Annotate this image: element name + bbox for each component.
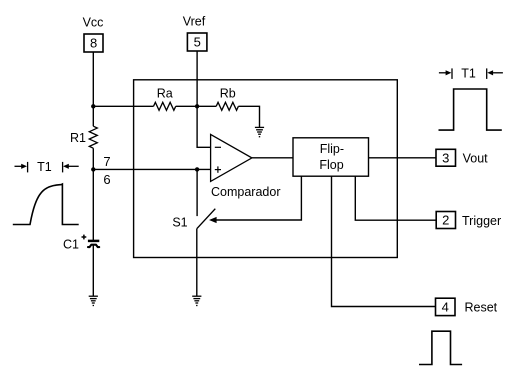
ground (S1) bbox=[192, 296, 201, 305]
power label Vcc bbox=[83, 16, 104, 30]
wire pin5 to comparator minus input bbox=[197, 51, 211, 147]
svg-text:Flip-: Flip- bbox=[320, 142, 344, 156]
wire pin8 to node VCC bbox=[92, 52, 94, 106]
wire R1 to node A (pins 7/6) bbox=[92, 148, 94, 169]
svg-text:Ra: Ra bbox=[157, 87, 173, 101]
switch S1 bbox=[172, 169, 215, 296]
svg-text:Reset: Reset bbox=[465, 300, 498, 314]
svg-text:5: 5 bbox=[194, 35, 201, 50]
node A junction dot bbox=[91, 167, 95, 171]
svg-text:Vout: Vout bbox=[463, 151, 489, 165]
svg-text:Trigger: Trigger bbox=[462, 214, 501, 228]
T1 interval marker (output waveform) bbox=[439, 67, 503, 81]
capacitor C1 polarized bbox=[63, 235, 99, 252]
resistor R1 bbox=[70, 126, 97, 148]
svg-text:7: 7 bbox=[103, 154, 110, 169]
power label Vref bbox=[183, 15, 206, 29]
wire node A to capacitor C1 bbox=[92, 169, 94, 240]
svg-text:Comparador: Comparador bbox=[211, 185, 280, 199]
resistor Ra bbox=[154, 87, 176, 111]
node Vref junction dot bbox=[195, 104, 199, 108]
wire flip-flop to pin 2 trigger bbox=[355, 176, 436, 220]
wire node VCC to R1 bbox=[92, 106, 94, 126]
wire node A to comparator plus input bbox=[93, 168, 210, 170]
wire comparator output to flip-flop bbox=[252, 157, 293, 159]
svg-text:Flop: Flop bbox=[319, 158, 343, 172]
reset pulse waveform bbox=[419, 331, 462, 364]
svg-text:R1: R1 bbox=[70, 131, 86, 145]
svg-text:2: 2 bbox=[442, 213, 449, 228]
capacitor charge waveform (left) bbox=[13, 184, 79, 225]
arrowhead to S1 bbox=[209, 217, 217, 223]
svg-text:6: 6 bbox=[103, 172, 110, 187]
wire node VCC to Ra bbox=[93, 105, 153, 107]
svg-text:4: 4 bbox=[442, 300, 449, 315]
wire Ra to node Vref bbox=[176, 105, 217, 107]
IC boundary rectangle bbox=[134, 80, 398, 258]
pin box 5 (Vref pin) bbox=[187, 33, 207, 51]
pin box 4 (Reset) bbox=[436, 298, 498, 315]
pin box 3 (Vout) bbox=[436, 149, 488, 166]
wire C1 to ground bbox=[92, 245, 94, 296]
svg-text:S1: S1 bbox=[172, 216, 187, 230]
svg-text:T1: T1 bbox=[461, 67, 476, 81]
flip-flop box bbox=[293, 138, 369, 176]
op-amp U1 comparator bbox=[211, 134, 281, 199]
pin box 2 (Trigger) bbox=[436, 212, 501, 229]
svg-text:C1: C1 bbox=[63, 237, 79, 251]
ground (Rb) bbox=[255, 127, 264, 136]
svg-text:T1: T1 bbox=[37, 160, 52, 174]
node B junction dot (switch tap) bbox=[195, 167, 199, 171]
output pulse waveform (Vout) bbox=[439, 89, 502, 130]
wire flip-flop output to pin 3 bbox=[369, 157, 437, 159]
svg-text:8: 8 bbox=[90, 36, 97, 51]
resistor Rb bbox=[216, 87, 238, 111]
svg-text:Vref: Vref bbox=[183, 15, 206, 29]
svg-text:3: 3 bbox=[442, 150, 449, 165]
pin box 8 (Vcc pin) bbox=[84, 34, 103, 52]
wire Rb to ground bbox=[238, 106, 259, 127]
ground (C1) bbox=[89, 296, 98, 305]
T1 interval marker (input waveform) bbox=[15, 160, 79, 174]
wire flip-flop to pin 4 reset bbox=[332, 176, 436, 306]
svg-text:Vcc: Vcc bbox=[83, 16, 104, 30]
node VCC junction dot bbox=[91, 104, 95, 108]
wire flip-flop to S1 arrow bbox=[216, 176, 301, 220]
svg-text:Rb: Rb bbox=[220, 87, 236, 101]
